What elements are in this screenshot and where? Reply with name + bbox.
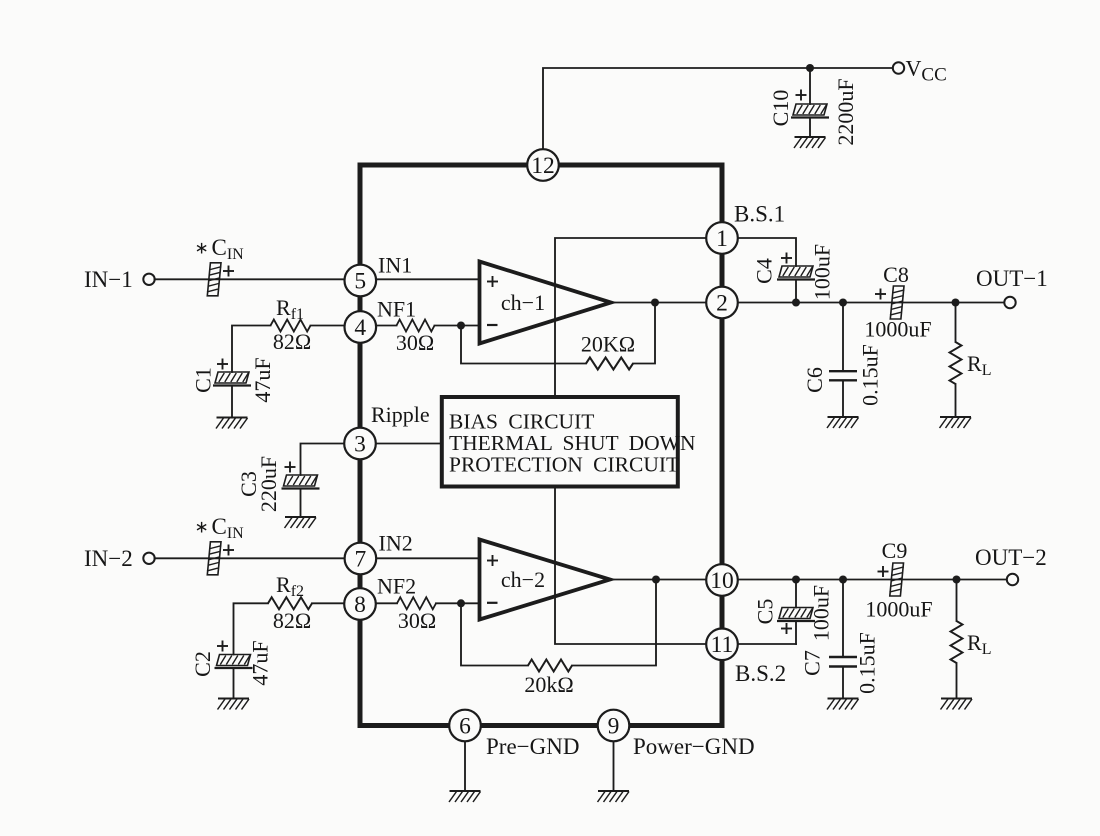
terminal OUT-1 terminal bbox=[1004, 297, 1015, 308]
minus mark ch-1 bbox=[487, 324, 498, 326]
pin 1 (B.S.1) bbox=[706, 222, 738, 254]
junction C4/output node bbox=[792, 299, 800, 307]
wire C5 top lead bbox=[795, 580, 797, 608]
wire RL2 bottom lead bbox=[956, 663, 958, 698]
ground C6 ground bbox=[827, 417, 859, 428]
wire C6 bottom lead bbox=[842, 381, 844, 417]
wire Rf2 to pin 8 bbox=[312, 602, 345, 604]
wire 30ohm to ch-2 - input bbox=[436, 602, 480, 604]
svg-text:NF2: NF2 bbox=[377, 574, 416, 599]
plus sign ch-1 + input mark bbox=[487, 276, 498, 287]
svg-text:OUT−1: OUT−1 bbox=[976, 266, 1048, 291]
wire IN-1 to pin 5 bbox=[155, 278, 345, 280]
terminal IN-2 terminal bbox=[143, 553, 154, 564]
wire C10 top lead bbox=[809, 68, 811, 104]
wire pin 6 ground lead bbox=[464, 741, 466, 791]
op-amp U1 ch-1 bbox=[480, 262, 612, 344]
svg-text:1: 1 bbox=[716, 226, 728, 252]
capacitor C1 bbox=[213, 372, 251, 386]
resistor Rf1 82ohm bbox=[271, 320, 311, 332]
ground C7 ground bbox=[827, 699, 859, 710]
capacitor C3 bbox=[282, 475, 320, 489]
svg-text:11: 11 bbox=[711, 632, 734, 658]
wire ch-2 feedback riser bbox=[572, 580, 656, 666]
wire C7 bottom lead bbox=[842, 667, 844, 698]
svg-text:BIAS CIRCUIT: BIAS CIRCUIT bbox=[449, 410, 594, 434]
plus sign C8 polarity bbox=[875, 289, 886, 300]
wire pin 2 output line bbox=[738, 302, 1005, 304]
svg-text:IN−1: IN−1 bbox=[84, 267, 133, 292]
svg-text:ch−1: ch−1 bbox=[501, 290, 545, 315]
svg-text:C7: C7 bbox=[800, 650, 825, 676]
pin 8 (NF2) bbox=[344, 588, 376, 620]
junction ch-2 output/feedback node bbox=[652, 576, 660, 584]
plus sign C2 polarity bbox=[217, 641, 228, 652]
pin 12 (Vcc pin) bbox=[527, 149, 559, 181]
svg-text:0.15uF: 0.15uF bbox=[855, 632, 880, 694]
junction ch-1 output/feedback node bbox=[651, 299, 659, 307]
resistor 20kohm (ch2) bbox=[528, 660, 572, 672]
pin 3 (Ripple) bbox=[344, 428, 376, 460]
resistor RL (ch1) bbox=[950, 342, 962, 384]
svg-text:NF1: NF1 bbox=[377, 297, 416, 322]
wire C6 top lead bbox=[842, 303, 844, 372]
plus sign ch-2 + input mark bbox=[487, 555, 498, 566]
wire ch-2 output bbox=[610, 579, 707, 581]
pin 6 (Pre-GND) bbox=[449, 710, 481, 742]
capacitor C2 bbox=[215, 655, 253, 669]
wire bias to pin 11 B.S. line bbox=[555, 487, 707, 644]
wire ch-2 feedback lower bbox=[461, 603, 528, 665]
svg-text:Power−GND: Power−GND bbox=[633, 734, 755, 759]
junction RL1/output node bbox=[952, 299, 960, 307]
plus sign C5 polarity bbox=[781, 623, 792, 634]
capacitor CIN (ch2) bbox=[207, 542, 221, 575]
svg-text:Ripple: Ripple bbox=[371, 402, 430, 427]
svg-text:82Ω: 82Ω bbox=[273, 329, 311, 354]
wire RL1 top lead bbox=[955, 303, 957, 343]
svg-text:C10: C10 bbox=[768, 90, 793, 127]
minus mark ch-2 bbox=[487, 602, 498, 604]
pin 11 (B.S.2) bbox=[706, 629, 738, 661]
capacitor C4 bbox=[777, 266, 815, 280]
svg-text:0.15uF: 0.15uF bbox=[858, 344, 883, 406]
capacitor C9 bbox=[890, 563, 904, 596]
svg-text:220uF: 220uF bbox=[256, 456, 281, 512]
svg-text:PROTECTION CIRCUIT: PROTECTION CIRCUIT bbox=[449, 453, 679, 477]
svg-text:ch−2: ch−2 bbox=[501, 567, 545, 592]
wire pin12 to Vcc rail bbox=[543, 68, 893, 152]
svg-text:C5: C5 bbox=[753, 599, 778, 625]
capacitor C5 bbox=[777, 608, 815, 622]
svg-text:IN2: IN2 bbox=[379, 531, 413, 556]
wire pin 3 to bias block bbox=[376, 443, 442, 445]
svg-text:C1: C1 bbox=[191, 367, 216, 393]
svg-text:IN1: IN1 bbox=[378, 253, 412, 278]
capacitor C10 bbox=[791, 104, 829, 118]
wire RL2 top lead bbox=[956, 580, 958, 622]
wire pin 8 to 30ohm bbox=[376, 602, 397, 604]
svg-text:47uF: 47uF bbox=[250, 357, 275, 402]
wire pin 5 to ch-1 + input bbox=[376, 278, 480, 280]
wire C7 top lead bbox=[842, 580, 844, 657]
svg-text:82Ω: 82Ω bbox=[273, 608, 311, 633]
svg-text:C8: C8 bbox=[883, 262, 909, 287]
svg-text:20KΩ: 20KΩ bbox=[581, 332, 635, 357]
svg-text:IN−2: IN−2 bbox=[84, 546, 133, 571]
capacitor C8 bbox=[890, 286, 904, 319]
svg-text:47uF: 47uF bbox=[248, 640, 273, 685]
plus sign C1 polarity bbox=[217, 359, 228, 370]
ground pin 6 ground bbox=[449, 791, 481, 802]
junction Vcc/C10 node bbox=[806, 64, 814, 72]
pin 4 (NF1) bbox=[345, 311, 377, 343]
plus sign C4 polarity bbox=[781, 253, 792, 264]
resistor 30ohm (ch1) bbox=[397, 320, 435, 332]
op-amp U2 ch-2 bbox=[480, 540, 611, 620]
svg-text:4: 4 bbox=[354, 315, 366, 341]
resistor RL (ch2) bbox=[951, 621, 963, 663]
svg-text:30Ω: 30Ω bbox=[398, 608, 436, 633]
ground C10 ground bbox=[794, 137, 826, 148]
svg-text:C2: C2 bbox=[190, 651, 215, 677]
wire C1 bottom lead bbox=[231, 386, 233, 418]
wire C2 bottom lead bbox=[233, 668, 235, 698]
svg-text:2: 2 bbox=[716, 290, 728, 316]
capacitor C6 bbox=[829, 370, 857, 372]
wire 30ohm to ch-1 - input bbox=[435, 325, 480, 327]
svg-text:3: 3 bbox=[354, 431, 366, 457]
capacitor CIN (ch1) bbox=[207, 263, 221, 296]
pin 7 (IN2) bbox=[345, 543, 377, 575]
svg-text:9: 9 bbox=[608, 713, 620, 739]
capacitor C7 bbox=[829, 656, 857, 658]
svg-text:THERMAL SHUT DOWN: THERMAL SHUT DOWN bbox=[449, 431, 696, 455]
svg-text:30Ω: 30Ω bbox=[396, 330, 434, 355]
junction NF1 node bbox=[457, 322, 465, 330]
svg-text:6: 6 bbox=[459, 713, 471, 739]
wire pin 11 to C5 bbox=[738, 643, 797, 645]
wire RL1 bottom lead bbox=[955, 384, 957, 417]
svg-text:C9: C9 bbox=[882, 538, 908, 563]
pin 9 (Power-GND) bbox=[598, 710, 630, 742]
svg-text:∗: ∗ bbox=[195, 239, 209, 258]
wire pin 9 ground lead bbox=[613, 741, 615, 791]
svg-text:∗: ∗ bbox=[195, 518, 209, 537]
svg-text:8: 8 bbox=[354, 592, 366, 618]
pin 5 (IN1) bbox=[345, 265, 377, 297]
svg-text:C4: C4 bbox=[752, 258, 777, 284]
wire pin 7 to ch-2 + input bbox=[376, 557, 480, 559]
svg-text:1000uF: 1000uF bbox=[864, 317, 931, 342]
junction NF2 node bbox=[457, 599, 465, 607]
plus sign C9 polarity bbox=[878, 566, 889, 577]
ground pin 9 ground bbox=[598, 791, 630, 802]
resistor 20Kohm (ch1) bbox=[586, 358, 633, 370]
wire C4 to output node bbox=[795, 280, 797, 303]
ground C2 ground bbox=[218, 699, 250, 710]
svg-text:7: 7 bbox=[355, 546, 367, 572]
wire pin 1 internal B.S. line bbox=[555, 238, 707, 397]
plus sign C10 polarity bbox=[796, 90, 807, 101]
svg-text:100uF: 100uF bbox=[809, 585, 834, 641]
wire C5 bottom lead bbox=[795, 621, 797, 644]
svg-text:100uF: 100uF bbox=[810, 244, 835, 300]
plus sign C3 polarity bbox=[285, 462, 296, 473]
terminal OUT-2 terminal bbox=[1007, 574, 1018, 585]
wire pin 1 to C4 bbox=[738, 238, 797, 266]
wire ch-1 feedback riser bbox=[633, 303, 655, 364]
wire ch-1 output bbox=[611, 302, 707, 304]
plus sign CIN2 polarity bbox=[223, 545, 234, 556]
wire pin 4 to 30ohm bbox=[376, 325, 397, 327]
wire Rf1 to C1 bbox=[232, 326, 271, 373]
ground C1 ground bbox=[216, 418, 248, 429]
svg-text:20kΩ: 20kΩ bbox=[524, 672, 573, 697]
wire IN-2 to pin 7 bbox=[155, 557, 345, 559]
svg-text:5: 5 bbox=[354, 268, 366, 294]
wire pin 10 output line bbox=[738, 579, 1008, 581]
svg-text:C6: C6 bbox=[802, 367, 827, 393]
resistor 30ohm (ch2) bbox=[397, 597, 436, 609]
wire C10 bottom lead bbox=[809, 118, 811, 138]
terminal IN-1 terminal bbox=[143, 274, 154, 285]
wire ch-1 feedback lower bbox=[461, 326, 586, 364]
bias circuit block bbox=[442, 397, 678, 487]
terminal VCC bbox=[893, 62, 904, 73]
IC package outline bbox=[360, 165, 722, 726]
ground RL1 ground bbox=[940, 417, 972, 428]
junction RL2/output node bbox=[953, 576, 961, 584]
svg-text:10: 10 bbox=[710, 568, 734, 594]
svg-text:B.S.1: B.S.1 bbox=[734, 202, 785, 227]
pin 2 (OUT1) bbox=[706, 287, 738, 319]
junction C5/output node bbox=[792, 576, 800, 584]
resistor Rf2 82ohm bbox=[268, 597, 312, 609]
wire Rf1 to pin 4 bbox=[311, 325, 345, 327]
junction C6/output node bbox=[839, 299, 847, 307]
wire Rf2 to C2 bbox=[234, 603, 269, 654]
plus sign CIN1 polarity bbox=[223, 266, 234, 277]
wire C3 bottom lead bbox=[300, 489, 302, 517]
svg-text:OUT−2: OUT−2 bbox=[975, 545, 1047, 570]
ground RL2 ground bbox=[941, 699, 973, 710]
svg-text:2200uF: 2200uF bbox=[833, 78, 858, 145]
pin 10 (OUT2) bbox=[706, 564, 738, 596]
ground C3 ground bbox=[285, 517, 317, 528]
svg-text:B.S.2: B.S.2 bbox=[735, 661, 786, 686]
wire pin 3 to C3 bbox=[301, 444, 345, 476]
svg-text:1000uF: 1000uF bbox=[865, 597, 932, 622]
svg-text:Pre−GND: Pre−GND bbox=[486, 734, 579, 759]
junction C7/output node bbox=[839, 576, 847, 584]
svg-text:12: 12 bbox=[531, 153, 555, 179]
